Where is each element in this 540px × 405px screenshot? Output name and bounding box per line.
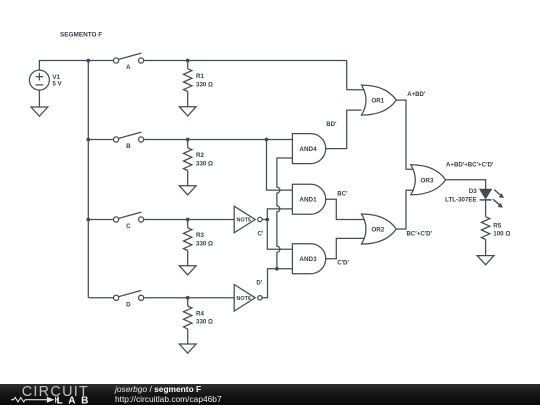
svg-text:LTL-307EE: LTL-307EE (445, 196, 477, 203)
svg-text:BC′: BC′ (337, 190, 348, 197)
svg-text:5 V: 5 V (52, 80, 62, 87)
svg-text:330 Ω: 330 Ω (196, 319, 213, 326)
svg-text:C: C (126, 223, 131, 230)
svg-text:OR3: OR3 (421, 177, 434, 184)
svg-text:BD′: BD′ (326, 121, 337, 128)
svg-text:A: A (126, 64, 131, 71)
svg-text:D′: D′ (256, 280, 262, 287)
svg-text:330 Ω: 330 Ω (196, 240, 213, 247)
svg-text:AND3: AND3 (299, 256, 317, 263)
svg-text:A+BD′+BC′+C′D′: A+BD′+BC′+C′D′ (446, 162, 494, 169)
svg-text:AND1: AND1 (299, 197, 317, 204)
svg-text:100 Ω: 100 Ω (493, 231, 510, 238)
svg-text:B: B (126, 143, 131, 150)
svg-text:330 Ω: 330 Ω (196, 160, 213, 167)
svg-text:OR2: OR2 (371, 227, 384, 234)
svg-text:R1: R1 (196, 73, 204, 80)
svg-text:C′D′: C′D′ (337, 259, 349, 266)
svg-text:330 Ω: 330 Ω (196, 81, 213, 88)
svg-text:R5: R5 (493, 223, 501, 230)
svg-text:SEGMENTO F: SEGMENTO F (60, 32, 102, 39)
svg-text:OR1: OR1 (371, 98, 384, 105)
svg-text:R3: R3 (196, 232, 204, 239)
svg-text:A+BD′: A+BD′ (407, 91, 426, 98)
svg-text:NOT6: NOT6 (237, 296, 251, 302)
svg-text:NOT5: NOT5 (237, 218, 251, 224)
svg-text:AND4: AND4 (299, 146, 317, 153)
svg-text:D3: D3 (469, 188, 477, 195)
svg-text:D: D (126, 301, 131, 308)
svg-text:C′: C′ (258, 230, 264, 237)
svg-text:R4: R4 (196, 310, 204, 317)
svg-text:LAB: LAB (57, 396, 94, 405)
svg-text:BC′+C′D′: BC′+C′D′ (407, 230, 433, 237)
svg-text:R2: R2 (196, 152, 204, 159)
